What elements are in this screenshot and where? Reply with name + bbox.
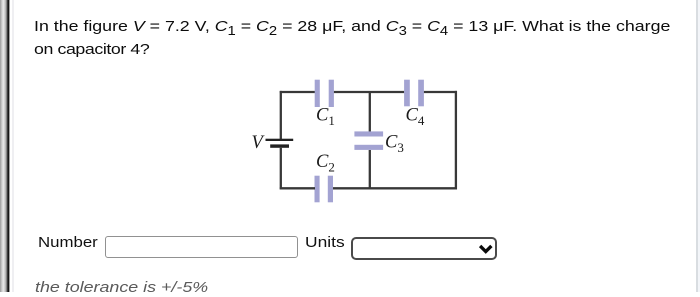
capacitor C1 xyxy=(315,80,334,107)
svg-text:C4: C4 xyxy=(406,106,425,129)
faint inner shadow line xyxy=(12,0,14,292)
wire: left side, lower (battery to bottom corner) xyxy=(280,148,282,190)
right pale strip xyxy=(698,0,700,292)
svg-text:C2: C2 xyxy=(316,152,335,175)
svg-text:C3: C3 xyxy=(385,133,404,156)
wire: right side vertical xyxy=(455,91,457,189)
capacitor C3 xyxy=(354,131,383,150)
svg-text:C1: C1 xyxy=(316,106,335,129)
capacitor C2 xyxy=(315,176,334,203)
question text xyxy=(34,16,670,61)
wire: bottom side, right segment xyxy=(333,187,457,189)
wire: top side, right segment (C4 to right corner) xyxy=(424,91,457,93)
Number input box xyxy=(105,236,298,258)
right pane divider line xyxy=(696,0,698,292)
svg-text:V: V xyxy=(252,133,266,153)
wire: middle vertical, upper (top wire to C3) xyxy=(369,92,371,132)
wire: left side, upper (top corner down to battery) xyxy=(280,91,282,139)
wire: top side, left segment (battery to C1) xyxy=(280,91,315,93)
left window edge bevel xyxy=(0,0,10,292)
wire: bottom side, left segment xyxy=(280,187,315,189)
tolerance note xyxy=(35,279,208,297)
Units label xyxy=(305,234,345,252)
dropdown chevron xyxy=(478,244,494,254)
battery V (bottom short thick plate) xyxy=(270,144,289,147)
Units dropdown box xyxy=(351,237,498,260)
Number label xyxy=(38,234,98,252)
wire: middle vertical, lower (C3 to bottom wire) xyxy=(369,150,371,188)
battery V (top long plate) xyxy=(266,139,294,141)
capacitor C4 xyxy=(404,80,424,107)
wire: top side, middle segment (C1 to C4) xyxy=(334,91,404,93)
